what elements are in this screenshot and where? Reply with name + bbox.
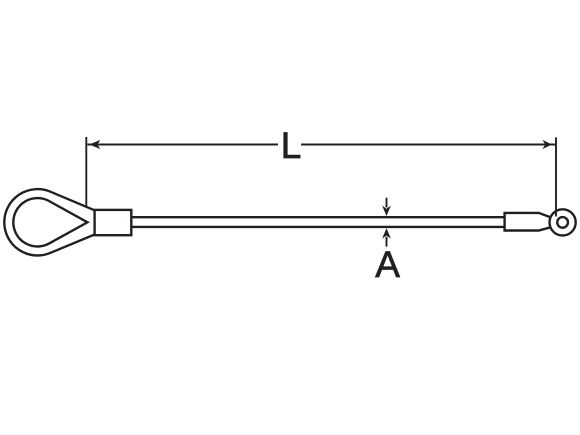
svg-text:A: A	[375, 244, 400, 285]
svg-text:L: L	[281, 125, 302, 166]
